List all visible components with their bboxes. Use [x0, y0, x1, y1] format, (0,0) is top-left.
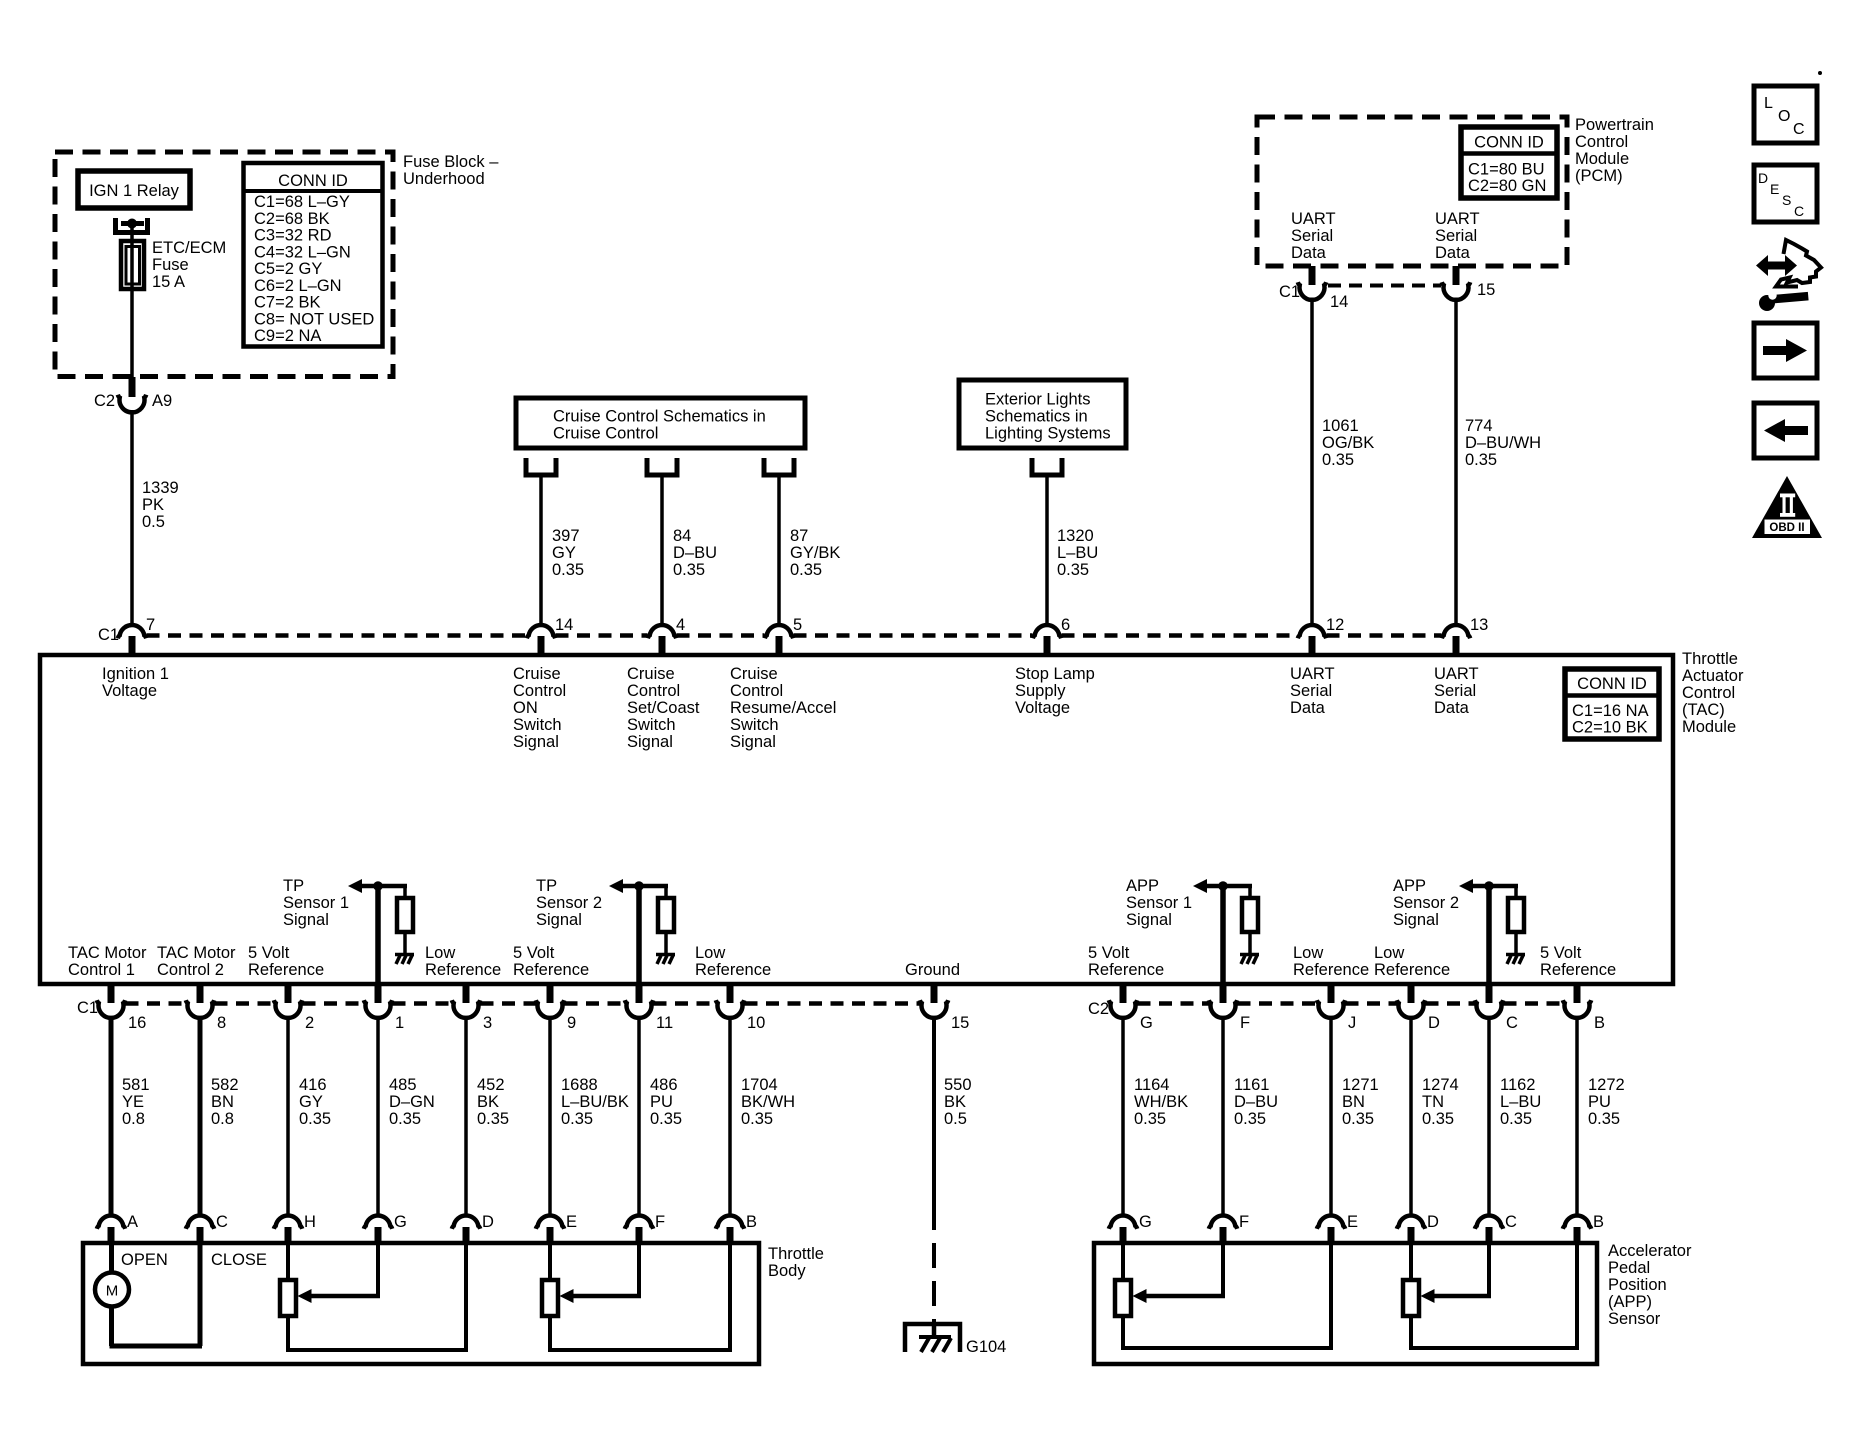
svg-text:Powertrain: Powertrain	[1575, 116, 1654, 134]
svg-text:Lighting Systems: Lighting Systems	[985, 425, 1111, 443]
svg-text:5: 5	[793, 616, 802, 634]
svg-text:5 Volt: 5 Volt	[513, 944, 555, 962]
svg-text:BK: BK	[477, 1093, 499, 1111]
svg-text:UART: UART	[1434, 665, 1479, 683]
svg-text:0.35: 0.35	[650, 1110, 682, 1128]
svg-text:D–BU: D–BU	[1234, 1093, 1278, 1111]
svg-text:Signal: Signal	[1126, 911, 1172, 929]
svg-text:1162: 1162	[1500, 1076, 1535, 1094]
svg-text:Underhood: Underhood	[403, 170, 485, 188]
svg-text:Switch: Switch	[513, 716, 562, 734]
svg-text:E: E	[566, 1213, 577, 1231]
svg-text:Switch: Switch	[730, 716, 779, 734]
svg-text:TAC Motor: TAC Motor	[157, 944, 236, 962]
svg-text:Signal: Signal	[1393, 911, 1439, 929]
svg-text:Supply: Supply	[1015, 682, 1066, 700]
svg-text:C2: C2	[1088, 1000, 1109, 1018]
svg-text:C2: C2	[94, 392, 115, 410]
svg-text:UART: UART	[1290, 665, 1335, 683]
svg-text:Sensor: Sensor	[1608, 1310, 1661, 1328]
svg-text:C1: C1	[98, 626, 119, 644]
svg-text:BK: BK	[944, 1093, 966, 1111]
svg-text:D–BU/WH: D–BU/WH	[1465, 434, 1541, 452]
svg-text:D: D	[1428, 1014, 1440, 1032]
svg-text:Signal: Signal	[283, 911, 329, 929]
svg-text:Fuse Block –: Fuse Block –	[403, 153, 499, 171]
svg-text:0.35: 0.35	[1322, 451, 1354, 469]
svg-text:C9=2 NA: C9=2 NA	[254, 327, 321, 345]
svg-text:APP: APP	[1126, 877, 1159, 895]
svg-text:Reference: Reference	[1540, 961, 1616, 979]
svg-text:0.35: 0.35	[552, 561, 584, 579]
svg-text:Reference: Reference	[1374, 961, 1450, 979]
svg-text:0.35: 0.35	[1465, 451, 1497, 469]
svg-text:Sensor 1: Sensor 1	[283, 894, 349, 912]
svg-text:1688: 1688	[561, 1076, 598, 1094]
svg-text:Set/Coast: Set/Coast	[627, 699, 700, 717]
svg-text:0.5: 0.5	[944, 1110, 967, 1128]
svg-text:1320: 1320	[1057, 527, 1094, 545]
svg-text:Cruise: Cruise	[513, 665, 561, 683]
svg-text:(APP): (APP)	[1608, 1293, 1652, 1311]
svg-text:Control 2: Control 2	[157, 961, 224, 979]
svg-text:Cruise: Cruise	[627, 665, 675, 683]
svg-text:1339: 1339	[142, 479, 179, 497]
svg-text:A: A	[127, 1213, 138, 1231]
svg-text:H: H	[304, 1213, 316, 1231]
svg-text:B: B	[1594, 1014, 1605, 1032]
svg-text:BN: BN	[211, 1093, 234, 1111]
svg-text:Serial: Serial	[1435, 227, 1477, 245]
svg-text:C6=2 L–GN: C6=2 L–GN	[254, 277, 342, 295]
svg-text:APP: APP	[1393, 877, 1426, 895]
svg-text:Ground: Ground	[905, 961, 960, 979]
svg-text:12: 12	[1326, 616, 1344, 634]
svg-text:84: 84	[673, 527, 691, 545]
svg-text:416: 416	[299, 1076, 327, 1094]
svg-text:PU: PU	[1588, 1093, 1611, 1111]
svg-text:0.8: 0.8	[211, 1110, 234, 1128]
svg-text:2: 2	[305, 1014, 314, 1032]
svg-text:Sensor 2: Sensor 2	[536, 894, 602, 912]
svg-text:D–BU: D–BU	[673, 544, 717, 562]
svg-text:Position: Position	[1608, 1276, 1667, 1294]
svg-text:Resume/Accel: Resume/Accel	[730, 699, 836, 717]
svg-text:582: 582	[211, 1076, 239, 1094]
svg-text:0.8: 0.8	[122, 1110, 145, 1128]
svg-text:0.35: 0.35	[1500, 1110, 1532, 1128]
svg-text:UART: UART	[1435, 210, 1480, 228]
svg-text:0.35: 0.35	[1342, 1110, 1374, 1128]
svg-text:485: 485	[389, 1076, 417, 1094]
svg-text:Signal: Signal	[627, 733, 673, 751]
svg-text:BK/WH: BK/WH	[741, 1093, 795, 1111]
svg-text:D: D	[1758, 170, 1768, 186]
svg-text:C8= NOT USED: C8= NOT USED	[254, 310, 374, 328]
svg-text:C1=68 L–GY: C1=68 L–GY	[254, 193, 350, 211]
svg-text:C5=2 GY: C5=2 GY	[254, 260, 322, 278]
svg-text:OBD II: OBD II	[1769, 522, 1804, 534]
svg-text:Serial: Serial	[1291, 227, 1333, 245]
svg-text:CLOSE: CLOSE	[211, 1251, 267, 1269]
svg-text:0.5: 0.5	[142, 513, 165, 531]
svg-text:8: 8	[217, 1014, 226, 1032]
svg-text:C3=32 RD: C3=32 RD	[254, 227, 332, 245]
svg-text:Reference: Reference	[248, 961, 324, 979]
svg-text:0.35: 0.35	[389, 1110, 421, 1128]
svg-text:3: 3	[483, 1014, 492, 1032]
svg-text:L–BU/BK: L–BU/BK	[561, 1093, 629, 1111]
svg-text:E: E	[1770, 181, 1779, 197]
svg-text:IGN 1 Relay: IGN 1 Relay	[89, 182, 180, 200]
svg-text:16: 16	[128, 1014, 146, 1032]
svg-text:D–GN: D–GN	[389, 1093, 435, 1111]
svg-text:7: 7	[146, 616, 155, 634]
svg-text:1272: 1272	[1588, 1076, 1625, 1094]
svg-text:F: F	[1240, 1014, 1250, 1032]
svg-text:Ignition 1: Ignition 1	[102, 665, 169, 683]
svg-text:Control 1: Control 1	[68, 961, 135, 979]
svg-text:Schematics in: Schematics in	[985, 408, 1088, 426]
svg-text:G: G	[394, 1213, 407, 1231]
svg-text:14: 14	[555, 616, 573, 634]
svg-text:TAC Motor: TAC Motor	[68, 944, 147, 962]
svg-text:Low: Low	[695, 944, 725, 962]
svg-text:CONN ID: CONN ID	[1577, 675, 1647, 693]
svg-text:Control: Control	[1682, 684, 1735, 702]
svg-text:GY: GY	[299, 1093, 323, 1111]
svg-text:OG/BK: OG/BK	[1322, 434, 1374, 452]
svg-text:Signal: Signal	[513, 733, 559, 751]
svg-text:452: 452	[477, 1076, 505, 1094]
svg-text:Throttle: Throttle	[1682, 650, 1738, 668]
svg-text:Body: Body	[768, 1262, 806, 1280]
svg-text:C1=16 NA: C1=16 NA	[1572, 702, 1649, 720]
svg-text:Module: Module	[1682, 718, 1736, 736]
svg-text:E: E	[1347, 1213, 1358, 1231]
svg-text:9: 9	[567, 1014, 576, 1032]
svg-text:Actuator: Actuator	[1682, 667, 1744, 685]
svg-text:Reference: Reference	[425, 961, 501, 979]
svg-text:0.35: 0.35	[1588, 1110, 1620, 1128]
svg-text:YE: YE	[122, 1093, 144, 1111]
svg-text:0.35: 0.35	[1422, 1110, 1454, 1128]
svg-text:Sensor 1: Sensor 1	[1126, 894, 1192, 912]
svg-text:Reference: Reference	[513, 961, 589, 979]
svg-text:550: 550	[944, 1076, 972, 1094]
svg-text:PU: PU	[650, 1093, 673, 1111]
svg-text:Signal: Signal	[536, 911, 582, 929]
svg-text:1061: 1061	[1322, 417, 1359, 435]
svg-text:13: 13	[1470, 616, 1488, 634]
svg-text:Data: Data	[1434, 699, 1470, 717]
svg-text:0.35: 0.35	[1234, 1110, 1266, 1128]
svg-text:M: M	[106, 1283, 119, 1300]
svg-text:C: C	[1505, 1213, 1517, 1231]
svg-text:Voltage: Voltage	[1015, 699, 1070, 717]
svg-text:ON: ON	[513, 699, 538, 717]
svg-text:(TAC): (TAC)	[1682, 701, 1725, 719]
svg-text:G104: G104	[966, 1338, 1006, 1356]
svg-text:L–BU: L–BU	[1057, 544, 1098, 562]
svg-text:87: 87	[790, 527, 808, 545]
svg-text:Data: Data	[1290, 699, 1326, 717]
svg-text:C: C	[1506, 1014, 1518, 1032]
svg-text:BN: BN	[1342, 1093, 1365, 1111]
svg-text:CONN ID: CONN ID	[278, 172, 348, 190]
svg-text:Voltage: Voltage	[102, 682, 157, 700]
svg-text:ETC/ECM: ETC/ECM	[152, 239, 226, 257]
svg-text:4: 4	[676, 616, 685, 634]
svg-text:GY: GY	[552, 544, 576, 562]
svg-text:G: G	[1140, 1014, 1153, 1032]
svg-text:S: S	[1782, 192, 1791, 208]
svg-text:C: C	[1794, 203, 1804, 219]
svg-text:Serial: Serial	[1434, 682, 1476, 700]
svg-text:Reference: Reference	[695, 961, 771, 979]
svg-text:581: 581	[122, 1076, 150, 1094]
svg-text:14: 14	[1330, 293, 1348, 311]
svg-text:10: 10	[747, 1014, 765, 1032]
svg-text:(PCM): (PCM)	[1575, 167, 1623, 185]
svg-text:D: D	[482, 1213, 494, 1231]
svg-text:774: 774	[1465, 417, 1493, 435]
svg-text:C7=2 BK: C7=2 BK	[254, 294, 321, 312]
svg-text:1161: 1161	[1234, 1076, 1269, 1094]
svg-text:UART: UART	[1291, 210, 1336, 228]
svg-text:0.35: 0.35	[673, 561, 705, 579]
svg-text:TP: TP	[283, 877, 304, 895]
svg-text:5 Volt: 5 Volt	[1088, 944, 1130, 962]
svg-text:B: B	[1593, 1213, 1604, 1231]
svg-text:Data: Data	[1435, 244, 1471, 262]
svg-text:WH/BK: WH/BK	[1134, 1093, 1188, 1111]
svg-text:C1: C1	[77, 999, 98, 1017]
svg-text:TN: TN	[1422, 1093, 1444, 1111]
svg-text:0.35: 0.35	[1057, 561, 1089, 579]
svg-text:CONN ID: CONN ID	[1474, 134, 1544, 152]
svg-text:Fuse: Fuse	[152, 256, 189, 274]
svg-text:C2=80 GN: C2=80 GN	[1468, 177, 1546, 195]
svg-text:15: 15	[951, 1014, 969, 1032]
svg-text:O: O	[1778, 108, 1790, 125]
svg-text:Low: Low	[1293, 944, 1323, 962]
svg-text:TP: TP	[536, 877, 557, 895]
svg-text:0.35: 0.35	[790, 561, 822, 579]
svg-text:1274: 1274	[1422, 1076, 1459, 1094]
svg-text:1164: 1164	[1134, 1076, 1169, 1094]
svg-text:Pedal: Pedal	[1608, 1259, 1650, 1277]
svg-text:GY/BK: GY/BK	[790, 544, 840, 562]
svg-text:Serial: Serial	[1290, 682, 1332, 700]
svg-text:Accelerator: Accelerator	[1608, 1242, 1692, 1260]
svg-text:Sensor 2: Sensor 2	[1393, 894, 1459, 912]
svg-text:0.35: 0.35	[299, 1110, 331, 1128]
svg-text:0.35: 0.35	[561, 1110, 593, 1128]
svg-text:A9: A9	[152, 392, 172, 410]
svg-text:Control: Control	[627, 682, 680, 700]
svg-text:Low: Low	[1374, 944, 1404, 962]
svg-text:5 Volt: 5 Volt	[1540, 944, 1582, 962]
svg-text:C: C	[216, 1213, 228, 1231]
svg-text:J: J	[1348, 1014, 1356, 1032]
svg-text:Exterior Lights: Exterior Lights	[985, 391, 1090, 409]
svg-text:1704: 1704	[741, 1076, 778, 1094]
svg-text:11: 11	[656, 1014, 673, 1032]
svg-text:C4=32 L–GN: C4=32 L–GN	[254, 243, 351, 261]
svg-text:C: C	[1793, 121, 1805, 138]
svg-text:B: B	[746, 1213, 757, 1231]
svg-text:1: 1	[395, 1014, 404, 1032]
svg-text:486: 486	[650, 1076, 678, 1094]
svg-text:Throttle: Throttle	[768, 1245, 824, 1263]
svg-text:397: 397	[552, 527, 580, 545]
svg-text:Control: Control	[1575, 133, 1628, 151]
svg-text:C1=80 BU: C1=80 BU	[1468, 161, 1545, 179]
svg-text:G: G	[1139, 1213, 1152, 1231]
svg-text:15: 15	[1477, 281, 1495, 299]
svg-text:1271: 1271	[1342, 1076, 1379, 1094]
svg-text:5 Volt: 5 Volt	[248, 944, 290, 962]
svg-text:0.35: 0.35	[741, 1110, 773, 1128]
svg-text:Cruise Control Schematics in: Cruise Control Schematics in	[553, 408, 766, 426]
svg-text:Control: Control	[730, 682, 783, 700]
svg-text:6: 6	[1061, 616, 1070, 634]
svg-text:PK: PK	[142, 496, 164, 514]
svg-text:OPEN: OPEN	[121, 1251, 168, 1269]
svg-text:F: F	[1239, 1213, 1249, 1231]
svg-text:Low: Low	[425, 944, 455, 962]
svg-text:C2=68 BK: C2=68 BK	[254, 210, 330, 228]
svg-text:Reference: Reference	[1088, 961, 1164, 979]
svg-text:0.35: 0.35	[477, 1110, 509, 1128]
svg-text:Cruise: Cruise	[730, 665, 778, 683]
svg-text:0.35: 0.35	[1134, 1110, 1166, 1128]
svg-text:Cruise Control: Cruise Control	[553, 425, 658, 443]
svg-text:L: L	[1764, 95, 1773, 112]
svg-text:Data: Data	[1291, 244, 1327, 262]
svg-text:Switch: Switch	[627, 716, 676, 734]
svg-text:C2=10 BK: C2=10 BK	[1572, 719, 1648, 737]
svg-text:L–BU: L–BU	[1500, 1093, 1541, 1111]
svg-text:F: F	[655, 1213, 665, 1231]
svg-text:C1: C1	[1279, 283, 1300, 301]
svg-text:Signal: Signal	[730, 733, 776, 751]
svg-text:Module: Module	[1575, 150, 1629, 168]
svg-text:Stop Lamp: Stop Lamp	[1015, 665, 1095, 683]
svg-text:Control: Control	[513, 682, 566, 700]
svg-text:D: D	[1427, 1213, 1439, 1231]
svg-text:15 A: 15 A	[152, 273, 185, 291]
svg-text:Reference: Reference	[1293, 961, 1369, 979]
